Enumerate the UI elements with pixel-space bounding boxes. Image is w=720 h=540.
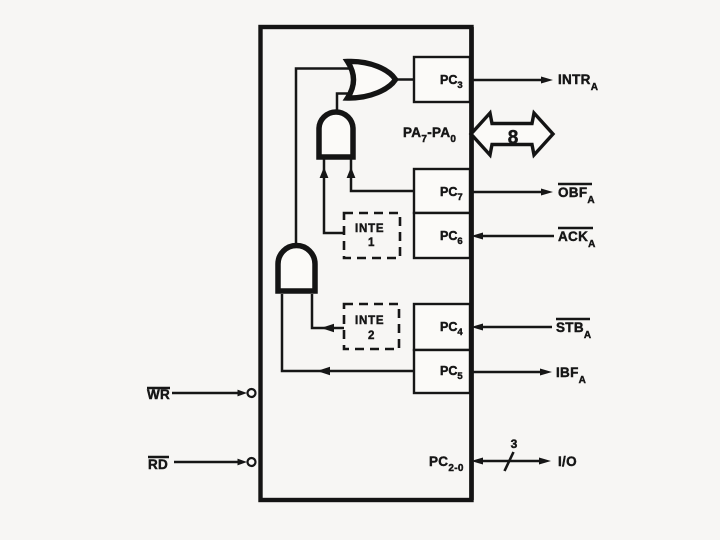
svg-text:2: 2: [368, 330, 375, 342]
svg-text:3: 3: [511, 437, 518, 451]
svg-text:INTE: INTE: [355, 315, 384, 327]
svg-text:WR: WR: [147, 387, 170, 402]
svg-text:8: 8: [508, 128, 519, 149]
svg-text:INTE: INTE: [355, 223, 384, 235]
svg-text:RD: RD: [148, 457, 168, 472]
svg-text:I/O: I/O: [558, 454, 577, 469]
svg-text:1: 1: [368, 237, 375, 249]
